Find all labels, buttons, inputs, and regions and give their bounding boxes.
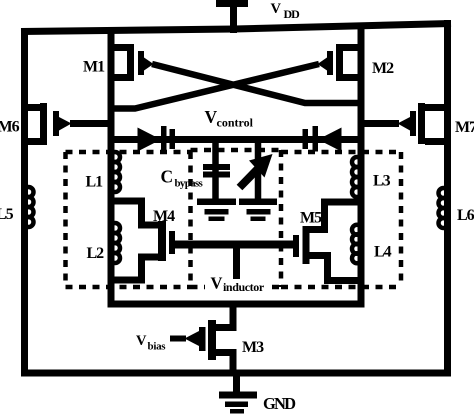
svg-text:M2: M2 bbox=[372, 60, 394, 77]
svg-text:L4: L4 bbox=[374, 244, 392, 261]
svg-text:control: control bbox=[217, 116, 254, 130]
svg-text:GND: GND bbox=[263, 394, 296, 413]
wire M3 drain connection bbox=[230, 301, 237, 328]
transistor M2 bbox=[338, 48, 364, 78]
svg-text:bias: bias bbox=[148, 341, 167, 353]
dashed box right (L3 L4 M5 tank) bbox=[281, 152, 401, 287]
transistor M3 bbox=[212, 328, 237, 353]
wire M5 source path bbox=[306, 256, 364, 281]
wire M4 drain branch bbox=[108, 201, 162, 225]
wire C_bypass branch bbox=[212, 140, 219, 201]
svg-text:M4: M4 bbox=[153, 208, 175, 225]
wire outer bottom (GND rail) bbox=[21, 370, 451, 377]
dashed box left (L1 L2 M4 tank) bbox=[66, 152, 191, 287]
varactor arrow (variable cap) bbox=[240, 167, 261, 188]
wire VDD top rail bbox=[21, 24, 451, 32]
transistor M7 bbox=[425, 108, 450, 142]
power symbol VDD bar bbox=[216, 0, 248, 7]
transistor M1 bbox=[108, 48, 134, 78]
wire cross-couple M1 gate to right rail bbox=[152, 64, 359, 103]
svg-text:L2: L2 bbox=[87, 245, 105, 262]
svg-text:inductor: inductor bbox=[223, 280, 265, 294]
ground (below C_bypass) bbox=[197, 199, 236, 222]
wire V_control line bbox=[111, 136, 361, 143]
svg-text:V: V bbox=[136, 333, 147, 349]
wire inner bottom bbox=[108, 301, 365, 308]
svg-text:C: C bbox=[161, 167, 174, 187]
svg-text:L1: L1 bbox=[86, 174, 104, 191]
ground GND symbol bbox=[233, 373, 240, 393]
wire inner left rail bbox=[108, 28, 115, 307]
svg-text:bypass: bypass bbox=[175, 178, 204, 190]
capacitor C_bypass plates bbox=[203, 164, 230, 178]
svg-text:L6: L6 bbox=[457, 207, 474, 224]
wire outer right rail bbox=[444, 20, 451, 377]
wire outer left rail bbox=[21, 28, 28, 377]
wire M4 source path bbox=[108, 257, 162, 280]
svg-text:M6: M6 bbox=[0, 119, 20, 136]
svg-text:M3: M3 bbox=[242, 339, 264, 356]
svg-text:M5: M5 bbox=[300, 210, 322, 227]
wire M7 gate to inner rail bbox=[358, 120, 399, 127]
transistor M4 bbox=[158, 221, 175, 261]
wire M5 drain branch bbox=[304, 202, 364, 230]
dashed box center (bypass/varactor) bbox=[191, 150, 282, 287]
inductor L3 bbox=[352, 157, 362, 197]
wire V_bias lead bbox=[170, 336, 186, 342]
inductor L4 bbox=[352, 225, 362, 264]
wire M6 gate to inner rail bbox=[70, 120, 114, 127]
transistor M5 bbox=[293, 226, 310, 264]
svg-text:L3: L3 bbox=[373, 173, 391, 190]
inductor L5 bbox=[24, 187, 34, 227]
inductor L1 bbox=[110, 152, 120, 192]
transistor M6 bbox=[22, 108, 47, 142]
svg-text:L5: L5 bbox=[0, 206, 14, 223]
varactor diode D1 (left, on V_control line) bbox=[138, 126, 176, 152]
ground (below varactor) bbox=[239, 199, 277, 222]
varactor diode D2 (right, on V_control line) bbox=[303, 126, 342, 152]
wire gate line M4 to M5 bbox=[175, 241, 293, 249]
wire V_inductor stub bbox=[233, 245, 240, 279]
wire VDD stub bbox=[230, 2, 237, 33]
svg-text:DD: DD bbox=[284, 7, 301, 21]
inductor L6 bbox=[439, 188, 449, 228]
svg-text:M7: M7 bbox=[455, 119, 474, 136]
wire cross-couple M2 gate to left rail bbox=[114, 64, 320, 109]
wire varactor branch bbox=[255, 140, 262, 201]
inductor L2 bbox=[110, 223, 120, 263]
svg-text:V: V bbox=[271, 1, 282, 17]
svg-text:V: V bbox=[211, 274, 223, 293]
wire inner right rail bbox=[358, 25, 365, 307]
svg-text:M1: M1 bbox=[83, 59, 105, 76]
wire M3 source connection bbox=[230, 352, 237, 376]
